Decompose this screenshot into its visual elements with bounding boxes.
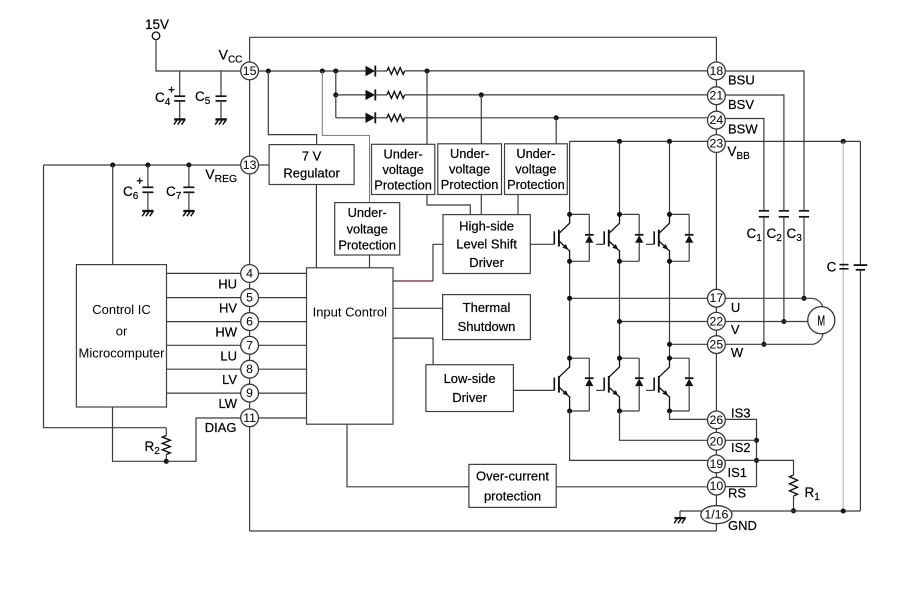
wire RS — [725, 486, 756, 488]
wire — [335, 95, 337, 118]
svg-text:Protection: Protection — [507, 177, 565, 192]
pin 18 — [708, 62, 726, 80]
svg-text:26: 26 — [710, 413, 724, 427]
wire GND — [680, 510, 860, 512]
svg-text:IS3: IS3 — [731, 405, 751, 420]
wire — [480, 195, 482, 215]
svg-text:BSW: BSW — [728, 121, 758, 136]
svg-text:Protection: Protection — [441, 177, 499, 192]
svg-text:Under-: Under- — [450, 146, 489, 161]
wire — [259, 164, 270, 166]
pin 20 — [708, 432, 726, 450]
svg-text:LU: LU — [220, 348, 237, 363]
svg-text:voltage: voltage — [449, 162, 490, 177]
svg-text:4: 4 — [246, 267, 253, 281]
svg-text:7: 7 — [246, 338, 253, 352]
svg-text:VREG: VREG — [205, 166, 237, 185]
wire HW — [167, 321, 241, 323]
capacitor C6 — [123, 165, 153, 211]
pin 17 — [708, 289, 726, 307]
svg-text:C2: C2 — [767, 226, 783, 244]
wire — [315, 185, 317, 268]
svg-text:M: M — [817, 312, 825, 329]
pin 8 — [241, 360, 259, 378]
IPM package outline — [250, 37, 717, 531]
transistor Q2 — [596, 214, 619, 261]
svg-text:Under-: Under- — [348, 205, 387, 220]
junction — [424, 68, 429, 73]
wire IS3 — [670, 411, 708, 419]
svg-text:GND: GND — [728, 518, 757, 533]
svg-text:C1: C1 — [747, 226, 763, 244]
pin 4 — [241, 265, 259, 283]
capacitor C2 — [767, 208, 790, 322]
block Control IC or Microcomputer U1 — [76, 265, 166, 407]
terminal 15V — [145, 17, 169, 40]
svg-text:Input Control: Input Control — [313, 305, 388, 320]
svg-text:C6: C6 — [123, 184, 139, 202]
junction — [801, 296, 806, 301]
wire to low-side driver — [393, 338, 433, 365]
wire IS3 — [725, 419, 756, 486]
svg-text:DIAG: DIAG — [205, 420, 237, 435]
svg-text:C4: C4 — [155, 90, 171, 108]
wire IS2 — [620, 411, 708, 440]
bootstrap diode D1 — [366, 66, 376, 77]
wire — [859, 141, 861, 265]
capacitor C7 — [166, 165, 194, 211]
svg-text:13: 13 — [243, 158, 257, 172]
svg-text:Microcomputer: Microcomputer — [79, 346, 166, 361]
wire VCC bus — [259, 70, 366, 72]
junction — [479, 92, 484, 97]
wire LU — [167, 344, 241, 346]
wire LV — [167, 368, 241, 370]
wire to over-current protection — [347, 424, 469, 487]
svg-text:Driver: Driver — [469, 255, 504, 270]
wire — [369, 255, 371, 268]
svg-text:15V: 15V — [145, 17, 169, 32]
junction — [667, 139, 672, 144]
svg-text:24: 24 — [710, 113, 724, 127]
junction — [667, 342, 672, 347]
junction — [761, 342, 766, 347]
junction — [617, 139, 622, 144]
svg-text:voltage: voltage — [347, 221, 388, 236]
svg-text:5: 5 — [246, 291, 253, 305]
wire W — [725, 343, 813, 345]
diode D9 — [670, 358, 694, 411]
wire HU — [167, 272, 241, 274]
pin 22 — [708, 312, 726, 330]
block Low-side Driver U9 — [426, 365, 514, 412]
svg-text:LV: LV — [222, 372, 237, 387]
wire U — [725, 297, 804, 299]
svg-text:C: C — [827, 260, 837, 275]
svg-text:9: 9 — [246, 386, 253, 400]
resistor R2 — [145, 428, 171, 462]
pin 15 — [241, 62, 259, 80]
pin 19 — [708, 455, 726, 473]
wire IS1 — [570, 411, 708, 460]
wire — [480, 95, 482, 144]
svg-text:V: V — [731, 322, 740, 337]
wire — [569, 141, 571, 214]
diode D6 — [670, 214, 694, 261]
capacitor C5 — [195, 71, 227, 119]
wire HW — [259, 321, 307, 323]
ground — [183, 211, 195, 216]
wire V — [725, 321, 808, 323]
wire — [427, 195, 470, 215]
diode D8 — [620, 358, 644, 411]
svg-text:C3: C3 — [787, 226, 803, 244]
ground — [674, 511, 686, 523]
node — [667, 212, 672, 217]
block 7V Regulator U2 — [269, 145, 354, 185]
pin 13 — [241, 156, 259, 174]
pin 10 — [708, 477, 726, 495]
wire — [517, 195, 519, 215]
wire HV — [259, 297, 307, 299]
wire — [113, 407, 167, 461]
pin 24 — [708, 111, 726, 129]
svg-text:C5: C5 — [195, 89, 211, 107]
svg-text:7 V: 7 V — [302, 149, 322, 164]
svg-text:8: 8 — [246, 362, 253, 376]
capacitor C3 — [787, 208, 810, 298]
svg-text:IS1: IS1 — [728, 465, 748, 480]
svg-text:BSV: BSV — [728, 97, 754, 112]
block Under-voltage Protection U5 — [438, 144, 502, 195]
svg-text:17: 17 — [710, 291, 724, 305]
svg-text:20: 20 — [710, 434, 724, 448]
wire — [166, 418, 240, 461]
wire VREG — [44, 164, 241, 166]
svg-text:LW: LW — [218, 396, 237, 411]
svg-text:HV: HV — [219, 301, 237, 316]
wire HU — [259, 272, 307, 274]
junction — [320, 68, 325, 73]
pin 21 — [708, 87, 726, 105]
wire left rail to R2 — [44, 165, 167, 428]
svg-text:RS: RS — [728, 486, 746, 501]
capacitor C — [827, 260, 868, 275]
svg-text:19: 19 — [710, 457, 724, 471]
wire BSW — [405, 117, 708, 119]
diode D4 — [570, 214, 594, 261]
junction — [333, 68, 338, 73]
svg-text:Under-: Under- — [384, 146, 423, 161]
wire to 7V regulator — [268, 71, 316, 145]
pin 6 — [241, 313, 259, 331]
wire — [335, 71, 337, 95]
junction — [554, 115, 559, 120]
svg-text:protection: protection — [484, 488, 541, 503]
junction — [567, 296, 572, 301]
svg-text:R1: R1 — [805, 485, 821, 503]
svg-text:Regulator: Regulator — [283, 166, 340, 181]
wire U phase — [570, 297, 708, 299]
block Under-voltage Protection U4 — [372, 144, 435, 194]
bootstrap resistor — [376, 94, 388, 96]
svg-text:HW: HW — [215, 325, 237, 340]
svg-text:Under-: Under- — [516, 146, 555, 161]
wire to Control IC — [112, 165, 114, 265]
wire — [619, 261, 621, 358]
transistor Q5 — [596, 358, 619, 411]
wire BSU — [405, 70, 708, 72]
svg-text:25: 25 — [710, 338, 724, 352]
svg-text:C7: C7 — [166, 184, 182, 202]
svg-text:VBB: VBB — [727, 144, 750, 162]
svg-text:U: U — [731, 300, 740, 315]
svg-text:10: 10 — [710, 479, 724, 493]
wire IS1 to R1 — [725, 460, 793, 475]
node — [667, 356, 672, 361]
pin 25 — [708, 336, 726, 354]
svg-text:High-side: High-side — [459, 218, 514, 233]
block High-side Level Shift Driver U7 — [443, 215, 530, 274]
svg-text:11: 11 — [243, 411, 256, 425]
svg-text:Protection: Protection — [338, 238, 396, 253]
junction — [164, 459, 169, 464]
wire — [156, 40, 241, 71]
bootstrap resistor — [376, 117, 388, 119]
ground — [215, 119, 227, 124]
svg-text:Low-side: Low-side — [444, 371, 496, 386]
wire LV — [259, 368, 307, 370]
svg-text:R2: R2 — [145, 439, 161, 457]
junction — [754, 458, 759, 463]
wire DC rail — [842, 141, 844, 511]
transistor Q4 — [513, 358, 569, 411]
node — [567, 356, 572, 361]
wire DIAG — [259, 417, 307, 419]
svg-text:voltage: voltage — [515, 162, 556, 177]
diode D7 — [570, 358, 594, 411]
resistor R1 — [790, 475, 821, 511]
capacitor C1 — [747, 208, 770, 344]
svg-text:Protection: Protection — [374, 178, 432, 193]
svg-text:BSU: BSU — [728, 73, 755, 88]
pin 1/16 — [701, 506, 732, 524]
svg-text:or: or — [116, 324, 128, 339]
wire — [555, 118, 557, 144]
svg-text:IS2: IS2 — [731, 440, 751, 455]
block Thermal Shutdown U8 — [443, 295, 531, 340]
node — [567, 212, 572, 217]
wire HV — [167, 297, 241, 299]
junction — [841, 508, 846, 513]
wire BSU to C3 — [725, 71, 804, 208]
wire LW — [259, 392, 307, 394]
wire — [859, 270, 861, 511]
wire to high-side driver — [393, 244, 443, 281]
svg-text:Thermal: Thermal — [463, 300, 511, 315]
wire — [669, 141, 671, 214]
block Over-current protection U10 — [469, 464, 556, 507]
block Under-voltage Protection U3 — [335, 203, 400, 255]
junction — [266, 68, 271, 73]
node — [617, 356, 622, 361]
wire to thermal shutdown — [393, 307, 443, 309]
wire BSV — [405, 94, 708, 96]
wire BSW to C1 — [725, 119, 764, 209]
wire — [426, 71, 428, 144]
svg-text:W: W — [731, 345, 744, 360]
junction — [333, 92, 338, 97]
junction — [110, 162, 115, 167]
svg-text:voltage: voltage — [382, 162, 423, 177]
bootstrap diode D3 — [336, 117, 366, 119]
transistor Q6 — [646, 358, 670, 411]
diode D5 — [620, 214, 644, 261]
ground — [142, 211, 154, 216]
svg-text:1/16: 1/16 — [704, 508, 728, 522]
bootstrap resistor — [376, 70, 388, 72]
capacitor C4 — [155, 71, 185, 119]
motor M — [808, 307, 835, 334]
block Input Control U11 — [307, 268, 394, 424]
junction — [617, 319, 622, 324]
junction — [791, 508, 796, 513]
svg-text:23: 23 — [710, 137, 724, 151]
svg-text:18: 18 — [710, 64, 724, 78]
svg-text:HU: HU — [218, 277, 237, 292]
pin 9 — [241, 384, 259, 402]
wire IS2 — [725, 439, 756, 441]
junction — [186, 162, 191, 167]
pin 26 — [708, 411, 726, 429]
pin 11 — [241, 409, 259, 427]
node — [617, 212, 622, 217]
wire — [619, 141, 621, 214]
wire — [569, 261, 571, 358]
bootstrap diode D2 — [336, 94, 366, 96]
transistor Q3 — [646, 214, 670, 261]
pin 23 — [708, 135, 726, 153]
ground — [174, 119, 186, 124]
wire LW — [167, 392, 241, 394]
junction — [754, 438, 759, 443]
wire U arc — [804, 298, 823, 307]
block Under-voltage Protection U6 — [505, 144, 568, 195]
wire — [669, 261, 671, 358]
svg-text:15: 15 — [243, 64, 257, 78]
pin 7 — [241, 336, 259, 354]
wire to under-voltage protection — [322, 71, 369, 203]
pin 5 — [241, 289, 259, 307]
transistor Q1 — [530, 214, 569, 261]
svg-text:21: 21 — [710, 89, 724, 103]
junction — [781, 319, 786, 324]
junction — [841, 139, 846, 144]
svg-text:Control IC: Control IC — [92, 302, 151, 317]
svg-text:Over-current: Over-current — [476, 468, 549, 483]
wire W arc — [813, 334, 823, 344]
svg-text:Shutdown: Shutdown — [458, 319, 516, 334]
wire BSV to C2 — [725, 95, 784, 208]
svg-text:22: 22 — [710, 314, 724, 328]
junction — [145, 162, 150, 167]
wire — [556, 486, 707, 488]
svg-text:6: 6 — [246, 315, 253, 329]
wire LU — [259, 344, 307, 346]
svg-text:VCC: VCC — [219, 47, 243, 66]
wire W phase — [670, 343, 708, 345]
wire V phase — [620, 321, 708, 323]
wire VBB bus — [570, 140, 861, 142]
svg-text:Driver: Driver — [452, 390, 487, 405]
svg-text:Level Shift: Level Shift — [456, 237, 517, 252]
